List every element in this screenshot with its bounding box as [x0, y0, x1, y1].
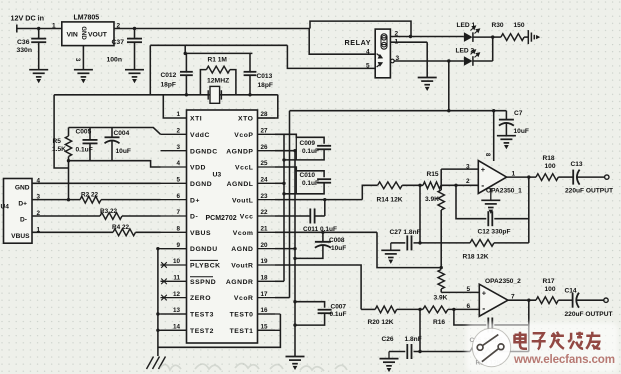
svg-text:C26: C26: [382, 336, 394, 343]
svg-text:R15: R15: [427, 171, 439, 178]
watermark chinese glyphs (drawn): [515, 332, 601, 350]
ground: C37: [125, 70, 144, 82]
wire: output feedback riser ch2: [528, 300, 530, 351]
wire: feedback R to output riser: [494, 242, 529, 244]
svg-text:100: 100: [545, 163, 556, 170]
junction: LED2 line branch: [447, 59, 450, 62]
op-amp OPA2350_2: [479, 284, 508, 316]
svg-text:2: 2: [176, 128, 180, 135]
svg-text:18: 18: [261, 275, 269, 282]
wire: opamp pin 8 supply drop: [493, 111, 495, 161]
svg-text:C37: C37: [112, 39, 125, 46]
junction: C36 tap: [37, 27, 40, 30]
wire: relay pin2 stub: [390, 36, 410, 38]
svg-text:22: 22: [261, 209, 269, 216]
wire: opamp1 output: [507, 176, 536, 178]
svg-text:28: 28: [261, 111, 269, 118]
resistor R18 12K (feedback): [470, 240, 494, 247]
svg-text:C008: C008: [329, 237, 345, 244]
wire: C13 to output jack L: [577, 176, 605, 178]
svg-text:12V DC in: 12V DC in: [11, 14, 45, 23]
svg-text:D-: D-: [20, 217, 27, 224]
watermark backdrop: [466, 323, 618, 373]
svg-text:3.9K: 3.9K: [434, 295, 448, 302]
wire: Vcom to bias rail: [377, 232, 441, 267]
svg-text:GND: GND: [15, 185, 30, 192]
junction: R5 / VDD rail: [67, 159, 70, 162]
capacitor C7 10uF: [505, 111, 507, 120]
junction: C27 node riser: [418, 241, 421, 244]
pin 22 U3 Vcc: [258, 215, 276, 217]
wire: Vcom pin21 run: [275, 231, 377, 233]
resistor R18 100: [536, 174, 558, 181]
svg-text:XTO: XTO: [238, 116, 254, 123]
svg-text:3: 3: [176, 144, 180, 151]
pin 3 U3 DGNDC: [161, 150, 187, 152]
terminal: left output: [605, 175, 609, 179]
junction: feedback tap ch2: [527, 299, 530, 302]
wire: R18 to C13: [558, 176, 573, 178]
wire: R14 to R15: [402, 184, 423, 186]
svg-text:Vcc: Vcc: [240, 214, 254, 221]
svg-text:VBUS: VBUS: [190, 230, 211, 237]
wire: VcoR pin17 to bus: [275, 297, 290, 299]
pin 15 U3 TEST1: [258, 329, 276, 331]
wire: rail down to XTI: [163, 95, 186, 118]
svg-text:2: 2: [466, 178, 470, 185]
resistor R19 12K (feedback): [470, 348, 494, 355]
wire: TEST pins bottom return: [158, 314, 281, 347]
svg-text:R16: R16: [433, 319, 445, 326]
resistor R16: [423, 306, 448, 313]
junction: C011 riser on VoutL: [323, 198, 326, 201]
junction: filter node ch1: [418, 184, 421, 187]
svg-text:0.1uF: 0.1uF: [302, 148, 319, 155]
svg-text:U4: U4: [1, 203, 10, 210]
wire: R15 to inverting input: [441, 184, 478, 186]
svg-text:VoutR: VoutR: [231, 263, 253, 270]
svg-text:R18 12K: R18 12K: [463, 254, 489, 261]
junction: R5 / D+: [67, 198, 70, 201]
svg-text:15: 15: [261, 323, 269, 330]
svg-text:19: 19: [261, 258, 269, 265]
svg-text:20: 20: [261, 242, 269, 249]
svg-text:10uF: 10uF: [116, 148, 131, 155]
capacitor C12 330pF: [487, 211, 489, 226]
svg-text:220uF OUTPUT: 220uF OUTPUT: [565, 188, 613, 195]
pin 28 U3 XTO: [258, 117, 276, 119]
capacitor C005 0.1uF: [89, 128, 91, 140]
wire: C27 to R feedback: [414, 242, 471, 244]
svg-text:+: +: [482, 289, 487, 298]
svg-text:C010: C010: [300, 172, 316, 179]
svg-text:-: -: [482, 304, 485, 314]
terminal: 12V input: [16, 25, 18, 33]
svg-text:0.1uF: 0.1uF: [302, 180, 319, 187]
pin 21 U3 Vcom: [258, 231, 276, 233]
svg-text:4: 4: [366, 49, 370, 56]
svg-text:10: 10: [173, 258, 181, 265]
svg-text:C14: C14: [565, 288, 577, 295]
op-amp OPA2350_1: [478, 161, 506, 194]
junction: C12 riser ch1: [454, 184, 457, 187]
resistor 3.9K ch2 (vertical): [438, 270, 444, 289]
junction: filter node ch2: [418, 308, 421, 311]
svg-text:LED 2: LED 2: [456, 48, 475, 55]
svg-text:Vcom: Vcom: [233, 230, 254, 237]
svg-text:C27 1.8nF: C27 1.8nF: [390, 229, 421, 236]
wire: crystal bottom rail: [54, 94, 278, 96]
wire: C15 to output riser: [494, 324, 529, 326]
svg-text:LED 1: LED 1: [457, 22, 476, 29]
svg-text:AGNDP: AGNDP: [226, 148, 253, 155]
svg-text:7: 7: [176, 209, 180, 216]
pin 2 U3 VddC: [161, 133, 187, 135]
wire: R16 to inverting input: [448, 308, 479, 310]
relay contact arrow upper: [377, 54, 382, 58]
capacitor C013 18pF: [249, 53, 251, 71]
svg-text:C36: C36: [17, 39, 30, 46]
capacitor C009 0.1uF loop: [275, 134, 324, 144]
wire: feedback R row ch1: [391, 242, 406, 244]
svg-text:OPA2350_2: OPA2350_2: [485, 278, 521, 285]
wire: 5V top loop to relay pin2: [310, 21, 411, 36]
svg-text:AGNDL: AGNDL: [227, 181, 254, 188]
svg-text:C004: C004: [114, 130, 130, 137]
LED 2: [464, 56, 473, 66]
capacitor C008 10uF: [322, 232, 324, 241]
svg-text:R20 12K: R20 12K: [368, 319, 394, 326]
wire: LED2 up to R30 node: [492, 37, 494, 61]
wire: feedback C12 row ch1: [456, 185, 486, 218]
resistor R14 12K: [378, 182, 403, 189]
svg-text:13: 13: [173, 307, 181, 314]
connector U4: [4, 179, 33, 244]
pin 7 U3 D-: [161, 215, 187, 217]
wire: C14 to output jack R: [577, 299, 605, 301]
svg-text:VDD: VDD: [190, 165, 206, 172]
svg-text:VddC: VddC: [190, 132, 210, 139]
svg-text:R1 1M: R1 1M: [208, 56, 228, 63]
junction: rail / opamp V+: [492, 109, 495, 112]
svg-text:R3 22: R3 22: [100, 208, 117, 215]
pin 6 U3 D+: [161, 199, 187, 201]
svg-text:150: 150: [514, 22, 525, 29]
wire: R17 to C14: [558, 299, 572, 301]
svg-text:D-: D-: [190, 214, 198, 221]
ground: C7: [497, 136, 516, 148]
svg-text:C12 330pF: C12 330pF: [478, 229, 511, 236]
wire: feedback R row ch2: [389, 351, 405, 353]
svg-text:AGND: AGND: [231, 246, 253, 253]
svg-text:26: 26: [261, 144, 269, 151]
wire: riser at x150: [149, 45, 151, 95]
svg-text:220uF OUTPUT: 220uF OUTPUT: [565, 311, 613, 318]
resistor R30 150: [493, 36, 501, 38]
svg-text:R2 22: R2 22: [81, 192, 98, 199]
svg-text:VOUT: VOUT: [88, 31, 108, 38]
pin 20 U3 AGND: [258, 248, 276, 250]
relay contact arrow lower: [377, 63, 382, 67]
svg-text:VcoP: VcoP: [234, 132, 253, 139]
capacitor C37 100n: [134, 29, 136, 39]
svg-text:R17: R17: [543, 278, 555, 285]
svg-text:25: 25: [261, 160, 269, 167]
svg-text:17: 17: [261, 291, 269, 298]
resistor R15: [423, 182, 441, 189]
svg-text:+: +: [481, 165, 486, 174]
capacitor C010 0.1uF loop: [275, 167, 324, 177]
svg-text:3: 3: [466, 163, 470, 170]
svg-text:VoutL: VoutL: [232, 197, 254, 204]
ground: R30 sideways: [528, 30, 538, 44]
pin 12 U3 ZERO: [161, 297, 187, 299]
ground: analog bus: [286, 357, 305, 369]
svg-text:R5: R5: [53, 138, 62, 145]
capacitor C007 0.1uF loop: [295, 302, 325, 308]
wire: lower rail to VDD pin4: [69, 161, 161, 167]
wire: R20 to R16: [397, 308, 423, 310]
resistor R2 22: [32, 199, 80, 201]
ground: relay pin1: [418, 78, 437, 90]
svg-text:8: 8: [176, 226, 180, 233]
capacitor C15 330pF: [487, 318, 489, 333]
wire: rail down to XTO: [258, 95, 278, 118]
svg-text:4: 4: [176, 160, 180, 167]
ground: chassis (hatched): [147, 357, 166, 370]
pin 14 U3 TEST2: [161, 329, 187, 331]
wire: C26 to R feedback ch2: [414, 351, 471, 353]
svg-text:3.9K: 3.9K: [425, 196, 439, 203]
wire: VoutR pin19 run down: [275, 265, 361, 309]
svg-text:12MHZ: 12MHZ: [207, 78, 229, 85]
resistor R4 22: [32, 231, 113, 233]
svg-text:ZERO: ZERO: [190, 295, 211, 302]
junction: relay pin2 / LED1: [409, 35, 412, 38]
svg-text:1.5K: 1.5K: [52, 146, 66, 153]
wire: VoutL step up to filter row: [362, 185, 377, 199]
wire: analog bus A: [283, 134, 285, 281]
pin 27 U3 VcoP: [258, 133, 276, 135]
svg-text:PCM2702: PCM2702: [206, 215, 237, 222]
wire: pin9 stub: [158, 248, 187, 250]
wire: opamp2 output: [508, 299, 536, 301]
svg-text:330n: 330n: [17, 47, 33, 54]
junction: C37 tap: [133, 27, 136, 30]
svg-text:21: 21: [261, 226, 269, 233]
svg-text:DGND: DGND: [190, 181, 212, 188]
svg-text:27: 27: [261, 128, 269, 135]
pin 19 U3 VoutR: [258, 264, 276, 266]
ground: C27: [390, 243, 392, 250]
wire: VoutR to R20: [361, 308, 375, 310]
svg-text:C7: C7: [514, 110, 523, 117]
junction: rail / LED branch: [447, 109, 450, 112]
wire: feedback C row ch2: [454, 309, 486, 325]
svg-text:1: 1: [176, 111, 180, 118]
capacitor C012 18pF: [185, 53, 187, 71]
svg-text:18pF: 18pF: [161, 81, 176, 88]
watermark logo circle: [472, 328, 510, 366]
wire: analog ground bus: [294, 151, 296, 357]
wire: pin15 tie: [258, 329, 281, 331]
wire: to non-inverting input ch2: [441, 291, 479, 293]
junction: feedback tap ch1: [527, 175, 530, 178]
wire: left drop to D+ node: [54, 95, 68, 168]
svg-text:7: 7: [511, 294, 515, 301]
svg-text:GND: GND: [80, 26, 86, 40]
svg-text:LM7805: LM7805: [74, 15, 100, 22]
resistor R20 12K: [375, 306, 396, 313]
wire: analog bus B (supply): [289, 111, 291, 298]
svg-text:C012: C012: [161, 72, 177, 79]
wire: relay pin1 to ground: [390, 41, 427, 43]
junction: C008 tap: [321, 231, 324, 234]
svg-text:1: 1: [512, 171, 516, 178]
svg-text:TEST0: TEST0: [230, 312, 254, 319]
svg-text:100: 100: [545, 286, 556, 293]
pin 9 U3 DGNDU: [161, 248, 187, 250]
resistor R17 100: [536, 297, 558, 304]
pin 16 U3 TEST0: [258, 313, 276, 315]
svg-text:RELAY: RELAY: [345, 38, 372, 47]
wire: AGND pin20 to bus: [275, 248, 295, 250]
wire: pin13 stub: [158, 313, 187, 315]
pin 3 LM7805 wire to ground: [82, 46, 84, 70]
ground: C36: [29, 70, 48, 82]
svg-text:AGNDR: AGNDR: [226, 279, 254, 286]
svg-text:12: 12: [173, 291, 181, 298]
wire: relay pin5 feed: [287, 45, 375, 68]
wire: LED2 node down to rail: [448, 61, 450, 111]
junction: C fb riser ch2: [452, 308, 455, 311]
svg-text:R14 12K: R14 12K: [377, 197, 403, 204]
IC U3 PCM2702 body: [187, 110, 258, 343]
pin 17 U3 VcoR: [258, 297, 276, 299]
svg-text:TEST3: TEST3: [190, 312, 214, 319]
junction: C26 node riser: [418, 350, 421, 353]
resistor R3 22: [32, 215, 100, 217]
svg-text:5: 5: [467, 286, 471, 293]
svg-text:R30: R30: [492, 22, 504, 29]
pin 18 U3 AGNDR: [258, 280, 276, 282]
wire: opamp supply rail: [290, 110, 507, 112]
wire: cap top rail: [184, 45, 186, 53]
svg-text:TEST2: TEST2: [190, 328, 214, 335]
wire: pin16 tie: [258, 313, 281, 315]
relay RELAY body: [375, 29, 390, 78]
svg-text:10uF: 10uF: [514, 128, 529, 135]
svg-text:14: 14: [173, 323, 181, 330]
wire: 5V branch to relay pin4: [309, 29, 375, 55]
svg-text:-: -: [481, 181, 484, 191]
wire: VoutL pin23 run: [275, 199, 362, 201]
junction: LED cathodes join: [491, 35, 494, 38]
wire: DGNDU/TEST bus: [157, 249, 159, 356]
pin 13 U3 TEST3: [161, 313, 187, 315]
wire: LED1 cathode: [473, 36, 493, 38]
wire: feedback R to riser ch2: [494, 351, 529, 353]
wire: AGNDR pin18 to bus: [275, 280, 284, 282]
regulator LM7805: [62, 22, 114, 46]
capacitor C011 0.1uF: [275, 215, 310, 217]
wire: pin14 stub: [158, 329, 187, 331]
svg-text:C005: C005: [76, 129, 92, 136]
wire: C12 to output riser: [494, 218, 529, 220]
resistor R1 1M: [200, 70, 206, 95]
pin 11 U3 SSPND: [161, 280, 187, 282]
svg-text:5: 5: [176, 177, 180, 184]
svg-text:1.8nF: 1.8nF: [405, 336, 422, 343]
relay pin3 terminal circle: [391, 59, 395, 63]
svg-text:R18: R18: [543, 155, 555, 162]
svg-text:100n: 100n: [107, 57, 123, 64]
wire: AGNDL pin24 to bus: [275, 182, 284, 184]
svg-text:DGNDC: DGNDC: [190, 148, 218, 155]
capacitor C26 1.8nF: [406, 344, 408, 359]
svg-text:C13: C13: [571, 161, 583, 168]
pin 24 U3 AGNDL: [258, 182, 276, 184]
wire: oscillator return line: [150, 44, 287, 46]
wire: output feedback riser ch1: [528, 177, 530, 243]
svg-text:0.1uF: 0.1uF: [76, 147, 93, 154]
wire: to LED1 anode: [411, 36, 464, 38]
wire: relay pin3 to LED2: [394, 60, 464, 62]
relay coil symbol: [381, 34, 388, 49]
svg-text:PLYBCK: PLYBCK: [190, 263, 221, 270]
svg-text:TEST1: TEST1: [230, 328, 254, 335]
svg-text:6: 6: [176, 193, 180, 200]
resistor R5 1.5K: [68, 128, 70, 137]
wire: riser filter node ch2: [419, 309, 421, 351]
resistor 3.9K ch1 (vertical): [440, 169, 442, 190]
pin 10 U3 PLYBCK: [161, 264, 187, 266]
wire: USB GND to DGND: [32, 182, 161, 184]
svg-text:U3: U3: [213, 172, 222, 179]
svg-text:16: 16: [261, 307, 269, 314]
svg-text:SSPND: SSPND: [190, 279, 216, 286]
svg-text:www.elecfans.com: www.elecfans.com: [513, 353, 615, 366]
svg-text:9: 9: [176, 242, 180, 249]
wire: AGNDP pin26 to bus: [275, 150, 295, 152]
capacitor C36 330n: [38, 29, 40, 39]
pin 5 U3 DGND: [161, 182, 187, 184]
svg-text:23: 23: [261, 193, 269, 200]
pin 8 U3 VBUS: [161, 231, 187, 233]
svg-text:XTI: XTI: [190, 116, 202, 123]
svg-text:R4 22: R4 22: [112, 224, 129, 231]
pin 4 U3 VDD: [161, 166, 187, 168]
faint watermark ghost strokes: [160, 364, 347, 372]
ground: opamp1 V-: [490, 188, 492, 200]
svg-text:C009: C009: [300, 140, 316, 147]
wire: 12V to VIN: [17, 28, 62, 30]
svg-text:18pF: 18pF: [258, 82, 273, 89]
svg-text:24: 24: [261, 177, 269, 184]
wire: to non-inverting input ch1: [441, 168, 478, 170]
pin 26 U3 AGNDP: [258, 150, 276, 152]
terminal: right output: [604, 298, 608, 302]
LED 1: [464, 32, 473, 42]
wire: VddC rail to pin2: [69, 128, 161, 135]
svg-text:VIN: VIN: [67, 31, 78, 38]
pin 23 U3 VoutL: [258, 199, 276, 201]
svg-text:DGNDU: DGNDU: [190, 246, 218, 253]
svg-text:VBUS: VBUS: [11, 233, 30, 240]
capacitor C004 10uF: [111, 128, 113, 138]
svg-text:0.1uF: 0.1uF: [330, 311, 347, 318]
svg-text:C013: C013: [257, 73, 273, 80]
